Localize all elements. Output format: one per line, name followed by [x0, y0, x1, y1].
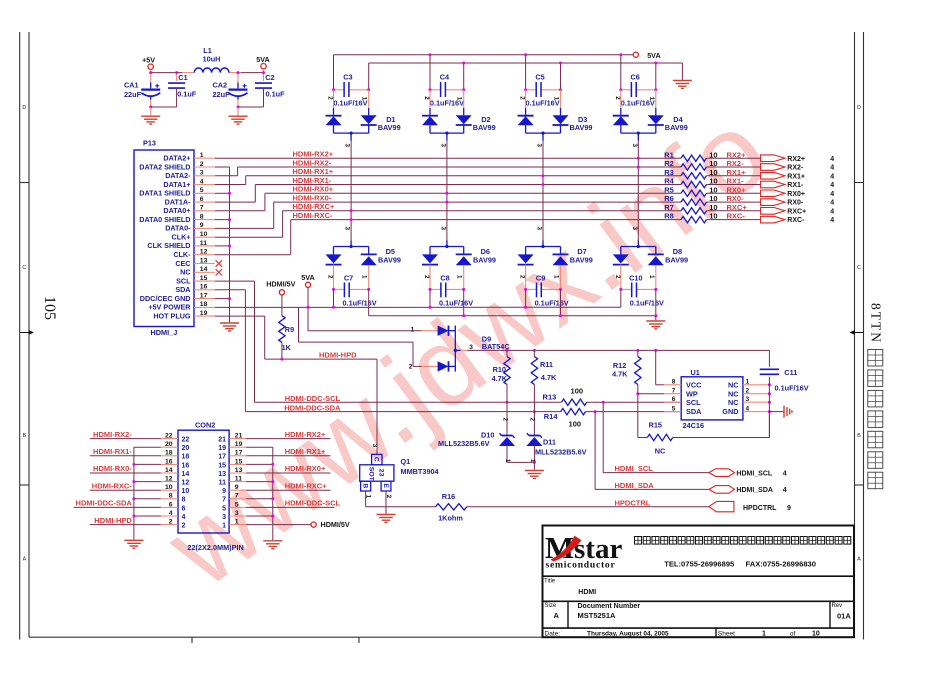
svg-text:HDMI-RX0-: HDMI-RX0- — [93, 464, 132, 473]
svg-text:8: 8 — [672, 379, 676, 386]
svg-text:1: 1 — [648, 275, 655, 279]
svg-text:NC: NC — [655, 447, 666, 456]
svg-text:2: 2 — [200, 161, 204, 168]
svg-text:01A: 01A — [837, 612, 851, 621]
svg-text:RX0-: RX0- — [727, 194, 745, 203]
svg-text:Rev: Rev — [832, 603, 843, 609]
svg-text:DATA2 SHIELD: DATA2 SHIELD — [139, 162, 190, 171]
svg-text:11: 11 — [200, 240, 207, 247]
svg-text:HDMI-RXC-: HDMI-RXC- — [293, 211, 333, 220]
svg-text:0.1uF: 0.1uF — [266, 90, 286, 99]
svg-text:HDMI-RX2-: HDMI-RX2- — [293, 158, 332, 167]
svg-text:RX1-: RX1- — [787, 182, 804, 189]
svg-text:1: 1 — [456, 275, 463, 279]
svg-text:10: 10 — [709, 177, 717, 186]
svg-text:1: 1 — [456, 97, 463, 101]
svg-text:BAV99: BAV99 — [378, 123, 401, 132]
svg-text:C2: C2 — [265, 73, 274, 82]
svg-text:NC: NC — [180, 268, 190, 277]
svg-text:HDMI_J: HDMI_J — [151, 328, 178, 337]
svg-text:9: 9 — [787, 505, 791, 512]
svg-text:21: 21 — [218, 437, 226, 444]
svg-text:HDMI-RX0+: HDMI-RX0+ — [285, 464, 326, 473]
svg-text:HDMI-RX1+: HDMI-RX1+ — [293, 167, 334, 176]
svg-text:6: 6 — [672, 396, 676, 403]
svg-text:2: 2 — [529, 418, 536, 422]
svg-text:5VA: 5VA — [256, 55, 269, 64]
svg-text:DATA1 SHIELD: DATA1 SHIELD — [139, 189, 190, 198]
svg-text:1: 1 — [200, 152, 204, 159]
svg-text:22(2X2.0MM)PIN: 22(2X2.0MM)PIN — [187, 543, 243, 552]
svg-text:2: 2 — [501, 418, 508, 422]
svg-text:NC: NC — [728, 380, 739, 389]
svg-text:Size: Size — [545, 603, 557, 609]
svg-text:9: 9 — [235, 484, 239, 491]
svg-text:DDC/CEC GND: DDC/CEC GND — [140, 294, 191, 303]
svg-text:21: 21 — [235, 433, 243, 440]
svg-text:19: 19 — [218, 445, 226, 452]
svg-text:1: 1 — [762, 630, 766, 637]
svg-text:HDMI-DDC-SDA: HDMI-DDC-SDA — [76, 499, 133, 508]
svg-text:B: B — [23, 433, 27, 439]
svg-text:0.1uF/16V: 0.1uF/16V — [439, 299, 473, 308]
svg-text:3: 3 — [469, 344, 473, 351]
svg-text:2: 2 — [182, 523, 186, 530]
svg-text:CA1: CA1 — [124, 81, 139, 90]
svg-text:3: 3 — [222, 514, 226, 521]
svg-text:12: 12 — [182, 480, 190, 487]
svg-text:8: 8 — [182, 497, 186, 504]
svg-text:HDMI-DDC-SCL: HDMI-DDC-SCL — [285, 394, 341, 403]
svg-text:3: 3 — [200, 170, 204, 177]
svg-text:11: 11 — [219, 480, 227, 487]
svg-text:R11: R11 — [540, 360, 553, 369]
svg-text:10: 10 — [182, 488, 190, 495]
svg-text:P13: P13 — [143, 139, 156, 148]
svg-text:HDMI-RX2-: HDMI-RX2- — [93, 430, 132, 439]
svg-text:4: 4 — [830, 191, 834, 198]
svg-text:DATA0+: DATA0+ — [163, 206, 190, 215]
svg-text:4: 4 — [830, 173, 834, 180]
svg-text:BAV99: BAV99 — [473, 256, 496, 265]
svg-text:5VA: 5VA — [301, 273, 314, 282]
svg-text:14: 14 — [182, 471, 190, 478]
svg-text:RXC-: RXC- — [787, 217, 805, 224]
svg-text:BAV99: BAV99 — [665, 256, 688, 265]
svg-text:HDMI-HPD: HDMI-HPD — [94, 516, 132, 525]
svg-text:4: 4 — [830, 165, 834, 172]
svg-text:C: C — [22, 265, 26, 271]
svg-text:7: 7 — [235, 493, 239, 500]
svg-text:3: 3 — [631, 227, 638, 231]
svg-text:HDMI: HDMI — [578, 589, 596, 596]
svg-text:10: 10 — [709, 203, 717, 212]
svg-text:7: 7 — [222, 497, 226, 504]
svg-text:1: 1 — [746, 379, 750, 386]
svg-text:HDMI/5V: HDMI/5V — [321, 520, 350, 529]
svg-text:HPDCTRL: HPDCTRL — [743, 505, 777, 512]
svg-text:CLK+: CLK+ — [172, 233, 191, 242]
svg-text:17: 17 — [200, 292, 208, 299]
svg-text:13: 13 — [200, 257, 208, 264]
svg-text:HDMI_SCL: HDMI_SCL — [736, 470, 773, 477]
svg-text:15: 15 — [218, 462, 226, 469]
svg-text:1: 1 — [411, 327, 415, 334]
svg-text:22uF: 22uF — [124, 90, 142, 99]
svg-text:TEL:0755-26996895: TEL:0755-26996895 — [664, 559, 735, 568]
svg-text:B: B — [361, 483, 368, 488]
svg-text:HDMI-RX1+: HDMI-RX1+ — [285, 447, 326, 456]
svg-text:1: 1 — [553, 97, 560, 101]
svg-text:3: 3 — [235, 510, 239, 517]
svg-text:10: 10 — [709, 194, 717, 203]
svg-text:3: 3 — [344, 227, 351, 231]
svg-text:R13: R13 — [543, 393, 557, 402]
svg-text:semiconductor: semiconductor — [546, 560, 616, 571]
svg-text:SCL: SCL — [176, 276, 191, 285]
svg-text:3: 3 — [371, 444, 378, 448]
svg-text:R1: R1 — [664, 150, 674, 159]
svg-text:Date:: Date: — [545, 630, 561, 637]
svg-text:RXC+: RXC+ — [787, 208, 806, 215]
svg-text:GND: GND — [722, 407, 738, 416]
svg-text:22: 22 — [182, 437, 190, 444]
svg-text:HDMI-DDC-SCL: HDMI-DDC-SCL — [285, 499, 341, 508]
svg-text:3: 3 — [536, 227, 543, 231]
svg-text:5: 5 — [672, 405, 676, 412]
svg-text:RXC+: RXC+ — [727, 203, 748, 212]
svg-text:10: 10 — [165, 484, 173, 491]
svg-text:C: C — [373, 457, 380, 462]
svg-text:MLL5232B5.6V: MLL5232B5.6V — [438, 439, 490, 448]
svg-text:4: 4 — [830, 182, 834, 189]
svg-text:22uF: 22uF — [213, 90, 231, 99]
svg-text:5: 5 — [235, 501, 239, 508]
svg-text:RX2-: RX2- — [727, 159, 745, 168]
svg-text:NC: NC — [728, 398, 739, 407]
svg-text:R10: R10 — [493, 365, 506, 374]
svg-text:0.1uF/16V: 0.1uF/16V — [343, 299, 377, 308]
svg-text:2: 2 — [519, 96, 526, 100]
svg-text:Q1: Q1 — [401, 457, 411, 466]
svg-text:C3: C3 — [343, 72, 352, 81]
svg-text:6: 6 — [182, 505, 186, 512]
svg-text:0.1uF/16V: 0.1uF/16V — [630, 299, 664, 308]
svg-text:10: 10 — [200, 231, 208, 238]
svg-text:DATA0-: DATA0- — [165, 224, 191, 233]
svg-text:2: 2 — [169, 519, 173, 526]
svg-text:R8: R8 — [664, 212, 674, 221]
svg-text:6: 6 — [200, 196, 204, 203]
svg-text:Sheet: Sheet — [718, 630, 735, 637]
svg-text:RX1+: RX1+ — [787, 173, 805, 180]
svg-text:RX2+: RX2+ — [727, 150, 747, 159]
svg-text:4: 4 — [169, 510, 173, 517]
svg-text:6: 6 — [169, 501, 173, 508]
svg-text:0.1uF/16V: 0.1uF/16V — [535, 299, 569, 308]
svg-text:7: 7 — [672, 387, 676, 394]
svg-text:R12: R12 — [613, 361, 626, 370]
svg-text:Document Number: Document Number — [578, 603, 641, 610]
svg-text:HDMI-RX2+: HDMI-RX2+ — [285, 430, 326, 439]
svg-text:1K: 1K — [282, 343, 292, 352]
svg-text:16: 16 — [200, 284, 208, 291]
svg-text:U1: U1 — [691, 368, 700, 377]
svg-text:18: 18 — [200, 301, 208, 308]
svg-text:R14: R14 — [544, 412, 559, 421]
svg-text:19: 19 — [200, 310, 208, 317]
svg-text:2: 2 — [409, 363, 413, 370]
svg-text:HDMI-RXC-: HDMI-RXC- — [92, 481, 132, 490]
svg-text:DAT1A-: DAT1A- — [165, 197, 191, 206]
svg-text:15: 15 — [235, 458, 243, 465]
svg-text:D: D — [857, 105, 861, 111]
svg-text:BAV99: BAV99 — [570, 123, 593, 132]
svg-text:14: 14 — [200, 266, 208, 273]
svg-text:RX0-: RX0- — [787, 200, 804, 207]
svg-text:100: 100 — [571, 387, 584, 396]
svg-text:HDMI/5V: HDMI/5V — [266, 279, 295, 288]
svg-text:5VA: 5VA — [647, 51, 660, 60]
svg-text:SDA: SDA — [175, 285, 190, 294]
svg-text:R7: R7 — [664, 203, 674, 212]
svg-text:D: D — [22, 105, 26, 111]
svg-text:4: 4 — [830, 200, 834, 207]
svg-text:CON2: CON2 — [195, 420, 215, 429]
svg-text:1: 1 — [648, 97, 655, 101]
svg-text:2: 2 — [519, 275, 526, 279]
svg-text:C10: C10 — [629, 273, 642, 282]
svg-text:RX2+: RX2+ — [787, 156, 805, 163]
svg-text:1: 1 — [222, 523, 226, 530]
svg-text:15: 15 — [200, 275, 208, 282]
svg-text:BAV99: BAV99 — [473, 123, 496, 132]
svg-text:12: 12 — [165, 476, 173, 483]
svg-text:4: 4 — [182, 514, 186, 521]
svg-text:R15: R15 — [649, 421, 662, 430]
svg-text:+5V: +5V — [142, 55, 155, 64]
svg-text:19: 19 — [235, 441, 243, 448]
svg-text:RX1-: RX1- — [727, 177, 745, 186]
svg-text:HPDCTRL: HPDCTRL — [615, 499, 651, 508]
svg-text:C11: C11 — [784, 368, 797, 377]
svg-text:16: 16 — [165, 458, 173, 465]
svg-text:HDMI-RXC+: HDMI-RXC+ — [285, 481, 327, 490]
svg-text:13: 13 — [235, 467, 243, 474]
svg-text:RX2-: RX2- — [787, 165, 804, 172]
svg-text:4: 4 — [746, 405, 750, 412]
svg-text:B: B — [857, 433, 861, 439]
svg-text:R16: R16 — [442, 492, 455, 501]
svg-text:R5: R5 — [664, 185, 674, 194]
svg-text:Thursday, August 04, 2005: Thursday, August 04, 2005 — [587, 631, 669, 638]
svg-text:C5: C5 — [535, 72, 544, 81]
svg-text:HDMI_SDA: HDMI_SDA — [615, 481, 655, 490]
svg-text:2: 2 — [423, 96, 430, 100]
svg-text:20: 20 — [182, 445, 190, 452]
svg-text:9: 9 — [200, 222, 204, 229]
svg-text:16: 16 — [182, 462, 190, 469]
svg-text:DATA2-: DATA2- — [165, 171, 191, 180]
svg-text:BAV99: BAV99 — [665, 123, 688, 132]
svg-text:R4: R4 — [664, 177, 674, 186]
svg-text:18: 18 — [182, 454, 190, 461]
svg-text:HDMI-HPD: HDMI-HPD — [319, 350, 357, 359]
svg-text:HDMI-RX1-: HDMI-RX1- — [93, 447, 132, 456]
svg-text:SOT: SOT — [367, 467, 374, 482]
svg-text:C: C — [857, 265, 861, 271]
svg-text:1: 1 — [235, 519, 239, 526]
svg-text:MST5251A: MST5251A — [578, 611, 617, 620]
svg-text:C4: C4 — [440, 72, 450, 81]
svg-text:2: 2 — [423, 275, 430, 279]
svg-text:HDMI_SDA: HDMI_SDA — [736, 487, 773, 494]
svg-text:10uH: 10uH — [203, 55, 221, 64]
svg-text:3: 3 — [439, 227, 446, 231]
svg-text:24C16: 24C16 — [683, 421, 705, 430]
svg-text:DATA1+: DATA1+ — [163, 180, 190, 189]
svg-text:1Kohm: 1Kohm — [438, 514, 463, 523]
svg-text:13: 13 — [218, 471, 226, 478]
svg-text:10: 10 — [709, 150, 717, 159]
svg-text:SDA: SDA — [686, 407, 702, 416]
svg-text:0.1uF/16V: 0.1uF/16V — [775, 384, 809, 393]
svg-text:DATA0 SHIELD: DATA0 SHIELD — [139, 215, 190, 224]
svg-text:10: 10 — [709, 185, 717, 194]
svg-text:22: 22 — [165, 433, 173, 440]
svg-text:RXC-: RXC- — [727, 212, 746, 221]
svg-text:3: 3 — [746, 396, 750, 403]
svg-text:10: 10 — [812, 630, 820, 637]
svg-text:Title: Title — [544, 579, 556, 585]
svg-text:RX0+: RX0+ — [727, 185, 747, 194]
svg-text:A: A — [23, 557, 27, 563]
svg-text:C9: C9 — [536, 273, 545, 282]
svg-text:MMBT3904: MMBT3904 — [401, 467, 440, 476]
svg-text:0.1uF: 0.1uF — [177, 90, 197, 99]
svg-text:R3: R3 — [664, 168, 674, 177]
svg-text:3: 3 — [536, 144, 543, 148]
svg-text:18: 18 — [165, 450, 173, 457]
svg-text:4.7K: 4.7K — [612, 370, 628, 379]
svg-text:C7: C7 — [344, 273, 353, 282]
svg-text:2: 2 — [746, 387, 750, 394]
svg-text:8: 8 — [200, 213, 204, 220]
svg-text:DATA2+: DATA2+ — [163, 154, 190, 163]
svg-text:3: 3 — [344, 144, 351, 148]
svg-text:3: 3 — [631, 144, 638, 148]
svg-text:RX1+: RX1+ — [727, 168, 747, 177]
svg-text:10: 10 — [709, 168, 717, 177]
svg-text:5: 5 — [200, 187, 204, 194]
svg-text:4: 4 — [783, 470, 787, 477]
svg-text:CEC: CEC — [175, 259, 190, 268]
svg-text:2: 2 — [327, 275, 334, 279]
svg-text:BAV99: BAV99 — [570, 256, 593, 265]
svg-text:HDMI-RX1-: HDMI-RX1- — [293, 176, 332, 185]
svg-text:11: 11 — [235, 476, 242, 483]
svg-text:MLL5232B5.6V: MLL5232B5.6V — [535, 448, 587, 457]
svg-text:10: 10 — [709, 212, 717, 221]
svg-text:CLK-: CLK- — [173, 250, 191, 259]
svg-text:C6: C6 — [631, 72, 640, 81]
svg-text:BAV99: BAV99 — [378, 256, 401, 265]
svg-text:4.7K: 4.7K — [541, 373, 557, 382]
svg-text:FAX:0755-26996830: FAX:0755-26996830 — [746, 559, 817, 568]
svg-text:8TTN: 8TTN — [869, 303, 884, 344]
svg-text:HOT PLUG: HOT PLUG — [153, 311, 191, 320]
svg-text:2: 2 — [327, 96, 334, 100]
svg-text:8: 8 — [169, 493, 173, 500]
svg-text:D11: D11 — [543, 438, 556, 447]
svg-text:HDMI-RX0-: HDMI-RX0- — [293, 194, 332, 203]
svg-text:HDMI_SCL: HDMI_SCL — [615, 464, 654, 473]
svg-text:20: 20 — [165, 441, 173, 448]
svg-text:1: 1 — [553, 275, 560, 279]
svg-text:2: 2 — [614, 96, 621, 100]
svg-text:HDMI-RX2+: HDMI-RX2+ — [293, 150, 334, 159]
svg-text:A: A — [857, 557, 861, 563]
svg-text:4: 4 — [830, 217, 834, 224]
svg-text:105: 105 — [41, 296, 58, 320]
svg-text:10: 10 — [709, 159, 717, 168]
svg-text:R6: R6 — [664, 194, 674, 203]
svg-text:C8: C8 — [440, 273, 449, 282]
svg-text:HDMI-RXC+: HDMI-RXC+ — [293, 202, 335, 211]
svg-text:VCC: VCC — [686, 380, 702, 389]
svg-text:SCL: SCL — [686, 398, 701, 407]
svg-text:17: 17 — [235, 450, 243, 457]
svg-text:E: E — [382, 483, 389, 488]
svg-text:+5V POWER: +5V POWER — [148, 303, 191, 312]
svg-text:1: 1 — [361, 97, 368, 101]
svg-text:CLK SHIELD: CLK SHIELD — [147, 241, 190, 250]
svg-text:A: A — [554, 611, 560, 620]
svg-text:17: 17 — [218, 454, 226, 461]
svg-text:4: 4 — [830, 208, 834, 215]
svg-text:9: 9 — [222, 488, 226, 495]
svg-text:CA2: CA2 — [213, 81, 228, 90]
svg-text:3: 3 — [439, 144, 446, 148]
svg-text:HDMI-RX0+: HDMI-RX0+ — [293, 185, 334, 194]
svg-text:14: 14 — [165, 467, 173, 474]
svg-text:23: 23 — [377, 469, 384, 477]
svg-text:12: 12 — [200, 249, 208, 256]
svg-text:5: 5 — [222, 505, 226, 512]
svg-text:2: 2 — [614, 275, 621, 279]
svg-text:4: 4 — [200, 178, 204, 185]
svg-text:4.7K: 4.7K — [492, 374, 508, 383]
svg-text:of: of — [790, 630, 796, 637]
svg-text:HDMI-DDC-SDA: HDMI-DDC-SDA — [284, 403, 341, 412]
svg-text:7: 7 — [200, 205, 204, 212]
svg-text:4: 4 — [783, 487, 787, 494]
svg-text:4: 4 — [830, 156, 834, 163]
svg-text:100: 100 — [569, 419, 582, 428]
svg-text:R2: R2 — [664, 159, 674, 168]
svg-text:R9: R9 — [285, 325, 294, 334]
svg-text:1: 1 — [361, 275, 368, 279]
svg-text:C1: C1 — [178, 73, 187, 82]
svg-text:RX0+: RX0+ — [787, 191, 805, 198]
